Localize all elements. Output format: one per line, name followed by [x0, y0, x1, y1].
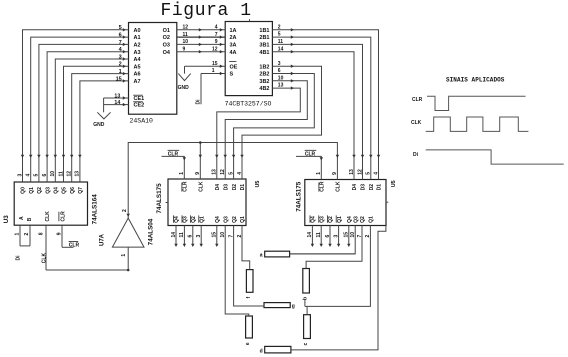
- svg-text:9: 9: [183, 47, 186, 53]
- svg-text:A6: A6: [134, 72, 141, 78]
- svg-text:12: 12: [220, 169, 226, 175]
- svg-text:OE: OE: [230, 64, 238, 70]
- svg-text:5: 5: [34, 174, 40, 177]
- svg-text:CLR: CLR: [168, 151, 179, 157]
- svg-text:A3: A3: [134, 50, 141, 56]
- svg-text:2: 2: [122, 209, 128, 212]
- svg-text:12: 12: [212, 47, 218, 53]
- svg-text:Q1: Q1: [337, 216, 343, 223]
- svg-text:U5: U5: [255, 181, 261, 188]
- svg-text:1: 1: [316, 172, 322, 175]
- svg-text:A4: A4: [134, 57, 142, 63]
- svg-text:15: 15: [212, 61, 218, 67]
- svg-text:6: 6: [278, 68, 281, 74]
- svg-text:11: 11: [316, 232, 322, 238]
- svg-text:74ALS04: 74ALS04: [148, 218, 155, 245]
- svg-text:U7A: U7A: [100, 233, 106, 246]
- svg-text:10: 10: [278, 75, 284, 81]
- svg-text:1: 1: [121, 254, 127, 257]
- svg-text:A7: A7: [134, 79, 141, 85]
- svg-text:O4: O4: [163, 50, 171, 56]
- svg-text:13: 13: [75, 171, 81, 177]
- svg-text:14: 14: [171, 232, 177, 238]
- svg-text:Di: Di: [15, 255, 21, 261]
- svg-text:Q7: Q7: [78, 187, 84, 194]
- svg-text:2B2: 2B2: [259, 72, 269, 78]
- svg-text:74ALS164: 74ALS164: [91, 194, 98, 225]
- svg-text:D2: D2: [232, 184, 238, 191]
- svg-text:1: 1: [119, 69, 122, 75]
- svg-text:e: e: [245, 342, 251, 345]
- svg-text:1: 1: [179, 172, 185, 175]
- svg-text:O3: O3: [163, 43, 170, 49]
- svg-text:CE1: CE1: [134, 96, 145, 102]
- svg-text:Q3: Q3: [353, 216, 359, 223]
- svg-text:CLR: CLR: [69, 242, 80, 248]
- svg-text:6: 6: [119, 33, 122, 39]
- svg-text:2: 2: [237, 235, 243, 238]
- svg-text:6: 6: [325, 235, 331, 238]
- svg-text:2: 2: [119, 62, 122, 68]
- svg-text:CLK: CLK: [199, 181, 205, 192]
- svg-text:74ALS175: 74ALS175: [295, 181, 302, 212]
- svg-text:CE2: CE2: [134, 103, 145, 109]
- svg-text:14: 14: [307, 232, 313, 238]
- svg-text:15: 15: [344, 232, 350, 238]
- svg-text:4: 4: [373, 172, 379, 175]
- svg-text:A1: A1: [134, 35, 141, 41]
- svg-text:A0: A0: [134, 28, 141, 34]
- svg-text:CLK: CLK: [411, 120, 422, 126]
- svg-text:5: 5: [119, 25, 122, 31]
- svg-text:10: 10: [350, 232, 356, 238]
- svg-text:D3: D3: [361, 184, 367, 191]
- svg-text:3: 3: [278, 61, 281, 67]
- svg-text:4: 4: [215, 25, 218, 31]
- svg-text:CLK: CLK: [336, 181, 342, 192]
- svg-text:3: 3: [333, 235, 339, 238]
- svg-text:D4: D4: [215, 184, 221, 191]
- svg-text:Q3: Q3: [183, 216, 189, 223]
- svg-text:7: 7: [357, 235, 363, 238]
- svg-text:11: 11: [58, 171, 64, 177]
- svg-text:4B1: 4B1: [259, 50, 269, 56]
- svg-text:7: 7: [215, 32, 218, 38]
- svg-text:GND: GND: [93, 122, 105, 128]
- svg-text:4A: 4A: [230, 50, 237, 56]
- svg-text:Di: Di: [196, 99, 202, 105]
- svg-text:13: 13: [114, 93, 120, 99]
- svg-text:15: 15: [212, 232, 218, 238]
- svg-text:Q4: Q4: [174, 216, 180, 223]
- svg-text:D1: D1: [240, 184, 246, 191]
- svg-text:Q2: Q2: [37, 187, 43, 194]
- svg-text:Q6: Q6: [70, 187, 76, 194]
- svg-text:Q3: Q3: [223, 216, 229, 223]
- svg-text:A5: A5: [134, 64, 141, 70]
- svg-text:Q2: Q2: [360, 216, 366, 223]
- svg-text:14: 14: [114, 100, 120, 106]
- svg-text:D4: D4: [352, 184, 358, 191]
- svg-text:12: 12: [357, 169, 363, 175]
- svg-text:2: 2: [278, 24, 281, 30]
- svg-text:Q1: Q1: [369, 216, 375, 223]
- svg-text:O1: O1: [163, 28, 170, 34]
- svg-text:Q3: Q3: [319, 216, 325, 223]
- svg-text:GND: GND: [178, 85, 190, 91]
- svg-text:6: 6: [188, 235, 194, 238]
- svg-text:Q4: Q4: [347, 216, 353, 223]
- svg-text:c: c: [303, 343, 309, 346]
- svg-text:CLR: CLR: [183, 181, 189, 192]
- svg-text:Q4: Q4: [311, 216, 317, 223]
- svg-text:2A: 2A: [230, 35, 237, 41]
- svg-text:Q4: Q4: [215, 216, 221, 223]
- svg-text:CLR: CLR: [305, 151, 316, 157]
- svg-text:1B1: 1B1: [259, 28, 269, 34]
- svg-text:g: g: [292, 304, 295, 310]
- svg-text:B: B: [27, 217, 33, 221]
- svg-text:4: 4: [237, 172, 243, 175]
- svg-text:CLK: CLK: [41, 253, 47, 264]
- svg-text:Q2: Q2: [191, 216, 197, 223]
- svg-text:Q1: Q1: [240, 216, 246, 223]
- svg-text:CLK: CLK: [45, 211, 51, 222]
- svg-text:a: a: [260, 252, 263, 258]
- svg-text:3: 3: [119, 54, 122, 60]
- svg-text:11: 11: [183, 32, 189, 38]
- svg-text:74CBT3257/SO: 74CBT3257/SO: [225, 100, 272, 107]
- svg-text:CLR: CLR: [60, 211, 66, 222]
- svg-text:O2: O2: [163, 35, 170, 41]
- svg-text:1A: 1A: [230, 28, 237, 34]
- svg-text:SINAIS APLICADOS: SINAIS APLICADOS: [446, 77, 505, 84]
- svg-text:D2: D2: [369, 184, 375, 191]
- svg-text:Q1: Q1: [199, 216, 205, 223]
- svg-text:9: 9: [215, 39, 218, 45]
- svg-text:3A: 3A: [230, 43, 237, 49]
- svg-text:CLR: CLR: [412, 97, 423, 103]
- svg-text:2: 2: [365, 235, 371, 238]
- svg-text:U3: U3: [3, 215, 10, 224]
- svg-text:11: 11: [179, 232, 185, 238]
- svg-text:A2: A2: [134, 43, 141, 49]
- svg-text:1: 1: [212, 68, 215, 74]
- svg-text:9: 9: [332, 172, 338, 175]
- svg-text:7: 7: [119, 40, 122, 46]
- svg-text:13: 13: [278, 83, 284, 89]
- svg-text:9: 9: [195, 172, 201, 175]
- svg-text:b: b: [302, 297, 308, 300]
- svg-text:Q4: Q4: [54, 187, 60, 194]
- svg-text:3: 3: [196, 235, 202, 238]
- svg-text:6: 6: [42, 174, 48, 177]
- svg-text:U5: U5: [391, 180, 397, 187]
- svg-text:3B2: 3B2: [259, 79, 269, 85]
- svg-text:d: d: [260, 349, 263, 355]
- svg-text:Q2: Q2: [232, 216, 238, 223]
- svg-text:5: 5: [366, 172, 372, 175]
- svg-text:Q5: Q5: [62, 187, 68, 194]
- svg-text:14: 14: [278, 46, 284, 52]
- svg-text:S: S: [230, 72, 234, 78]
- svg-text:Q3: Q3: [45, 187, 51, 194]
- svg-text:1: 1: [14, 233, 20, 236]
- svg-text:Q0: Q0: [21, 187, 27, 194]
- svg-text:7: 7: [228, 235, 234, 238]
- svg-text:10: 10: [50, 171, 56, 177]
- svg-text:10: 10: [183, 39, 189, 45]
- svg-text:13: 13: [212, 169, 218, 175]
- svg-text:9: 9: [56, 232, 62, 235]
- svg-text:12: 12: [183, 25, 189, 31]
- svg-text:13: 13: [349, 169, 355, 175]
- svg-text:D3: D3: [223, 184, 229, 191]
- svg-text:4: 4: [26, 174, 32, 177]
- svg-text:3B1: 3B1: [259, 43, 269, 49]
- svg-text:A: A: [19, 216, 25, 220]
- svg-text:4B2: 4B2: [259, 86, 269, 92]
- svg-text:5: 5: [228, 172, 234, 175]
- svg-text:5: 5: [278, 32, 281, 38]
- svg-text:74ALS175: 74ALS175: [156, 183, 163, 214]
- svg-text:Di: Di: [413, 152, 419, 158]
- svg-text:8: 8: [38, 232, 44, 235]
- svg-text:Figura 1: Figura 1: [161, 1, 252, 21]
- svg-text:1B2: 1B2: [259, 64, 269, 70]
- svg-text:12: 12: [67, 171, 73, 177]
- svg-text:2: 2: [24, 233, 30, 236]
- svg-text:Q1: Q1: [29, 187, 35, 194]
- svg-text:15: 15: [116, 76, 122, 82]
- svg-text:2B1: 2B1: [259, 35, 269, 41]
- svg-text:Q2: Q2: [328, 216, 334, 223]
- svg-text:3: 3: [17, 174, 23, 177]
- svg-text:11: 11: [278, 39, 284, 45]
- svg-text:D1: D1: [377, 184, 383, 191]
- svg-text:CLR: CLR: [320, 181, 326, 192]
- svg-text:24SA10: 24SA10: [130, 117, 154, 124]
- svg-text:10: 10: [220, 232, 226, 238]
